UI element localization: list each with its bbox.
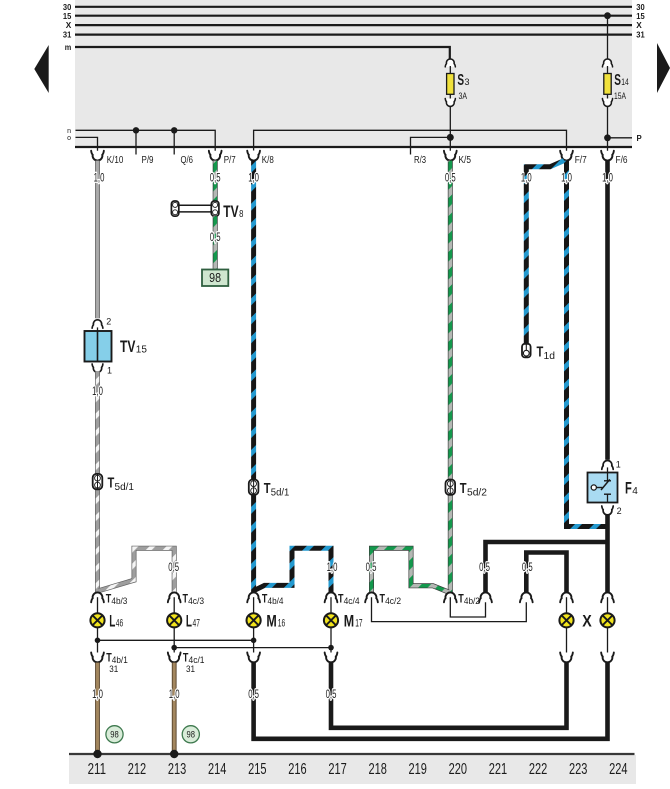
svg-text:K/10: K/10 [107, 155, 124, 166]
svg-text:4b/3: 4b/3 [111, 596, 127, 606]
node L47 line B [171, 645, 177, 651]
svg-text:98: 98 [110, 730, 119, 741]
wire T4b/4 to lamp [253, 597, 255, 614]
svg-text:S: S [457, 72, 464, 89]
wire lamp line B [174, 647, 331, 649]
wire M17 black loop [331, 663, 567, 728]
wire P stub [608, 137, 633, 139]
connector K/8 [247, 151, 260, 161]
switch F4 pin 2 [602, 506, 613, 515]
svg-text:2: 2 [106, 317, 111, 327]
svg-text:0,5: 0,5 [479, 562, 490, 574]
connector T4b/1 [91, 653, 104, 663]
relay TV15 pin 1 [92, 364, 103, 372]
svg-text:0,5: 0,5 [210, 232, 221, 244]
node S14 tap on 15 [604, 12, 611, 19]
svg-text:F: F [625, 480, 632, 498]
svg-text:224: 224 [609, 761, 628, 778]
svg-text:1,0: 1,0 [92, 689, 103, 701]
svg-text:TV: TV [120, 338, 135, 356]
svg-text:P: P [637, 133, 642, 143]
wire X-left to cup [566, 627, 568, 658]
svg-text:K/8: K/8 [262, 155, 274, 166]
svg-text:4c/2: 4c/2 [385, 596, 401, 606]
wire K/10 gray [95, 161, 100, 319]
wire X-right stub [607, 597, 609, 614]
svg-text:1,0: 1,0 [248, 172, 259, 184]
connector T4b/4 [247, 592, 260, 602]
svg-text:1,0: 1,0 [94, 172, 105, 184]
wire o rail [76, 137, 98, 154]
lamp M16 [247, 613, 261, 627]
svg-text:98: 98 [187, 730, 196, 741]
svg-text:R/3: R/3 [414, 155, 426, 166]
lamp L46 [90, 613, 104, 627]
node Q/6 junction [171, 127, 177, 133]
svg-text:16: 16 [278, 618, 285, 630]
bus line m [75, 47, 450, 59]
svg-text:216: 216 [288, 761, 306, 778]
connector T4b/2 [444, 592, 457, 602]
fuse S14 body [607, 66, 609, 74]
track numbers 211-224 [88, 761, 628, 778]
wire P/9 stub [135, 130, 137, 154]
svg-text:0,5: 0,5 [248, 689, 259, 701]
svg-text:1,0: 1,0 [169, 689, 180, 701]
right page arrow [657, 43, 670, 93]
wire T4c/3 to lamp [173, 597, 175, 614]
svg-text:Q/6: Q/6 [181, 155, 194, 166]
svg-text:221: 221 [489, 761, 507, 778]
connector bus inner pair [520, 592, 533, 602]
svg-text:2: 2 [617, 506, 622, 516]
svg-text:0,5: 0,5 [168, 562, 179, 574]
svg-text:215: 215 [248, 761, 267, 778]
svg-text:K/5: K/5 [459, 155, 472, 166]
svg-text:217: 217 [328, 761, 346, 778]
connector T4c/3 [168, 592, 181, 602]
svg-text:31: 31 [636, 30, 645, 40]
svg-text:T: T [460, 480, 467, 497]
svg-text:98: 98 [209, 270, 221, 285]
svg-text:213: 213 [168, 761, 186, 778]
wire F/6 black [605, 161, 610, 460]
svg-text:222: 222 [529, 761, 547, 778]
svg-text:1: 1 [616, 460, 621, 470]
node L46 line A [95, 638, 101, 644]
svg-text:5d/1: 5d/1 [271, 487, 290, 499]
svg-text:P/9: P/9 [142, 155, 154, 166]
wire M17 branch [255, 548, 331, 592]
wire T4c/4 to lamp [330, 597, 332, 614]
connector P/7 [209, 151, 222, 161]
node F/6 junction [604, 134, 611, 141]
relay TV15 pin 2 [92, 320, 103, 328]
svg-text:1,0: 1,0 [561, 172, 572, 184]
node P/9 junction [133, 127, 139, 133]
connector X-right bottom [601, 653, 614, 663]
wire L46 brown [95, 663, 100, 754]
gray bus band [75, 0, 632, 147]
svg-text:46: 46 [116, 618, 123, 630]
connector X-left top [560, 592, 573, 602]
wire L46 to T4b/1 [97, 627, 99, 658]
wire T4c/2 branch [372, 548, 449, 592]
lamp L47 [167, 613, 181, 627]
svg-text:0,5: 0,5 [366, 562, 377, 574]
svg-text:15: 15 [136, 344, 148, 355]
wire R/3 branch [411, 137, 451, 154]
svg-text:1,0: 1,0 [92, 386, 103, 398]
wire M17 to cup [330, 627, 332, 658]
svg-text:1: 1 [107, 366, 112, 376]
svg-text:220: 220 [449, 761, 468, 778]
ground symbol 98 left [106, 726, 123, 743]
svg-text:17: 17 [355, 618, 362, 630]
wire S14 to F/6 [607, 107, 609, 155]
lamp X right [600, 613, 614, 627]
svg-text:L: L [109, 611, 115, 630]
node M17 line B [328, 645, 334, 651]
svg-text:0,5: 0,5 [522, 562, 533, 574]
wire S14 feed [607, 16, 609, 59]
wire L47 brown [172, 663, 177, 754]
svg-text:T: T [108, 475, 115, 492]
svg-text:S: S [614, 72, 621, 89]
svg-text:211: 211 [88, 761, 106, 778]
wire TV15 down [95, 371, 100, 592]
fuse S14 bottom clip [607, 94, 609, 99]
relay TV15 box [97, 327, 99, 331]
lamp X left [559, 613, 573, 627]
svg-text:T: T [264, 480, 271, 497]
ground box 98 [202, 270, 228, 287]
wire T4b/3 to lamp [97, 597, 99, 614]
wire L47 to T4c/1 [173, 627, 175, 658]
svg-text:223: 223 [569, 761, 587, 778]
switch F4 contacts [607, 473, 609, 481]
svg-text:0,5: 0,5 [326, 689, 337, 701]
svg-text:m: m [65, 42, 72, 52]
connector K/10 [91, 151, 104, 161]
connector M17 bottom [325, 653, 338, 663]
svg-text:4: 4 [632, 486, 638, 497]
wire T4c/2 pair link [372, 597, 527, 621]
wire S3 to K/5 [449, 107, 451, 155]
wire L46 branch to T4c/3 [99, 548, 174, 592]
wire lamp line A [98, 639, 254, 641]
fuse S3 body [449, 66, 451, 74]
wire TV8 down [213, 216, 218, 269]
bottom track top edge [69, 753, 635, 755]
wire Q/6 stub [173, 130, 175, 154]
svg-text:3A: 3A [459, 91, 468, 102]
connector T5d/1 a [93, 474, 103, 489]
svg-text:M: M [266, 611, 276, 630]
svg-text:47: 47 [193, 618, 200, 630]
wire P/7 green [213, 161, 218, 201]
wire M16 to cup [253, 627, 255, 658]
svg-text:F/6: F/6 [616, 155, 628, 166]
wire bus outer [486, 542, 608, 594]
node L47 track [170, 750, 178, 758]
wire bus inner [526, 553, 566, 595]
svg-text:T: T [537, 344, 544, 361]
bottom track strip [69, 755, 636, 784]
svg-text:4c/3: 4c/3 [188, 596, 204, 606]
wire K/8 blue-black [251, 161, 256, 593]
svg-text:F/7: F/7 [575, 155, 587, 166]
connector K/5 [444, 151, 457, 161]
connector T4c/4 [325, 592, 338, 602]
svg-text:1,0: 1,0 [327, 562, 338, 574]
wire M16 black loop [254, 663, 608, 739]
svg-text:5d/1: 5d/1 [115, 481, 135, 493]
svg-text:5d/2: 5d/2 [467, 487, 487, 499]
wire X-left stub [566, 597, 568, 614]
connector T4c/2 [365, 592, 378, 602]
connector F/6 [601, 151, 614, 161]
connector T4c/1 [168, 653, 181, 663]
svg-text:14: 14 [621, 77, 629, 87]
connector T5d/1 b [249, 480, 259, 495]
switch F4 box [607, 467, 609, 472]
node M16 line A [251, 638, 257, 644]
ground symbol 98 right [182, 726, 199, 743]
fuse S3 bottom clip [449, 94, 451, 99]
svg-text:1,0: 1,0 [602, 172, 613, 184]
wire X-right to cup [607, 627, 609, 658]
bus line X [75, 24, 632, 26]
svg-text:31: 31 [109, 664, 118, 674]
svg-text:o: o [67, 135, 71, 142]
wire T4b/2 pair link [450, 597, 485, 617]
connector M16 bottom [247, 653, 260, 663]
fuse S14 top clip [602, 59, 612, 67]
svg-text:1,0: 1,0 [521, 172, 532, 184]
svg-text:4b/2: 4b/2 [464, 596, 480, 606]
left page arrow [34, 45, 48, 93]
svg-text:4c/4: 4c/4 [344, 596, 360, 606]
svg-text:P/7: P/7 [224, 155, 236, 166]
svg-text:4b/4: 4b/4 [268, 596, 284, 606]
svg-text:X: X [636, 20, 642, 30]
svg-text:15A: 15A [614, 91, 626, 102]
svg-text:214: 214 [208, 761, 227, 778]
bus line 15 [75, 15, 632, 17]
switch F4 pin 1 [602, 460, 613, 469]
svg-text:X: X [582, 611, 592, 630]
svg-text:212: 212 [128, 761, 146, 778]
bus line 30 [75, 6, 632, 8]
wire K/5 green [448, 161, 453, 593]
svg-text:0,5: 0,5 [210, 172, 221, 184]
svg-text:31: 31 [186, 664, 195, 674]
connector T5d/2 [446, 480, 456, 495]
node K/5 junction [447, 134, 454, 141]
svg-text:3: 3 [465, 77, 470, 87]
svg-text:31: 31 [63, 30, 72, 40]
wire K/8 to F/7 rail [254, 130, 567, 154]
svg-text:218: 218 [368, 761, 386, 778]
fuse S3 top clip [445, 59, 455, 67]
svg-text:TV: TV [223, 203, 238, 221]
svg-text:8: 8 [239, 209, 244, 220]
svg-text:0,5: 0,5 [445, 172, 456, 184]
bus band bottom edge [75, 146, 632, 148]
connector TV8 [171, 201, 178, 216]
connector T4b/3 [91, 592, 104, 602]
svg-text:X: X [66, 20, 72, 30]
wire F4 pin2 down [605, 514, 610, 594]
node L46 track [93, 750, 101, 758]
lamp M17 [324, 613, 338, 627]
connector T1d [522, 344, 531, 358]
connector bus outer pair [479, 592, 492, 602]
wire n rail [76, 130, 216, 154]
svg-text:n: n [67, 128, 71, 135]
svg-text:L: L [186, 611, 192, 630]
bus line 31 [75, 33, 632, 35]
wire F/7 split [526, 161, 564, 344]
svg-text:M: M [344, 611, 354, 630]
svg-text:1d: 1d [544, 350, 556, 362]
connector X-right top [601, 592, 614, 602]
connector F/7 [560, 151, 573, 161]
svg-text:219: 219 [409, 761, 427, 778]
connector X-left bottom [560, 653, 573, 663]
